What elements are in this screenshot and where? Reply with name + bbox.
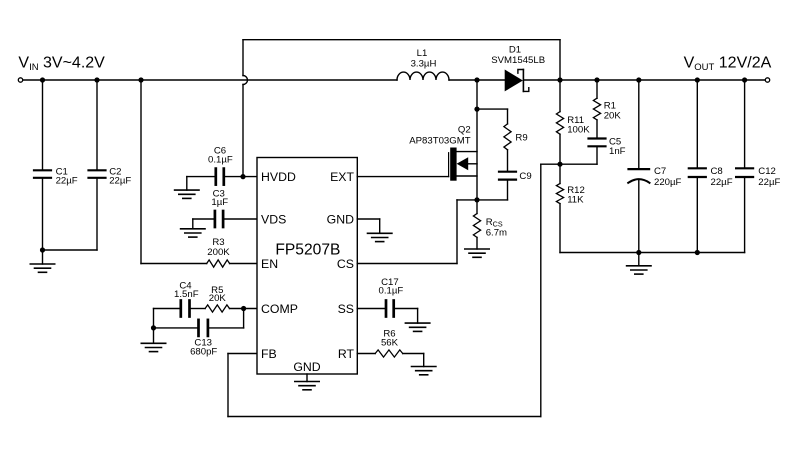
svg-text:100K: 100K bbox=[567, 124, 590, 135]
svg-text:GND: GND bbox=[293, 360, 320, 374]
svg-text:C12: C12 bbox=[758, 166, 776, 177]
svg-text:VIN 3V~4.2V: VIN 3V~4.2V bbox=[18, 55, 105, 74]
svg-text:11K: 11K bbox=[567, 195, 584, 206]
svg-text:R9: R9 bbox=[515, 133, 527, 144]
svg-text:D1: D1 bbox=[509, 44, 521, 55]
svg-text:6.7m: 6.7m bbox=[486, 227, 507, 238]
svg-text:22µF: 22µF bbox=[711, 177, 733, 188]
svg-text:22µF: 22µF bbox=[56, 175, 78, 186]
svg-text:0.1µF: 0.1µF bbox=[208, 154, 233, 165]
svg-text:EXT: EXT bbox=[330, 170, 354, 184]
svg-text:C8: C8 bbox=[711, 166, 723, 177]
svg-text:200K: 200K bbox=[207, 247, 230, 258]
svg-text:HVDD: HVDD bbox=[261, 170, 296, 184]
svg-text:1µF: 1µF bbox=[211, 197, 228, 208]
svg-text:GND: GND bbox=[327, 213, 354, 227]
svg-text:20K: 20K bbox=[604, 110, 622, 121]
svg-text:Q2: Q2 bbox=[458, 125, 471, 136]
svg-text:3.3µH: 3.3µH bbox=[411, 59, 437, 70]
svg-text:COMP: COMP bbox=[261, 302, 298, 316]
svg-text:SS: SS bbox=[338, 302, 354, 316]
svg-text:VOUT 12V/2A: VOUT 12V/2A bbox=[684, 55, 772, 74]
svg-text:1nF: 1nF bbox=[609, 146, 626, 157]
svg-text:FP5207B: FP5207B bbox=[275, 242, 340, 259]
svg-text:C7: C7 bbox=[654, 166, 666, 177]
svg-text:CS: CS bbox=[337, 257, 354, 271]
svg-text:C9: C9 bbox=[519, 171, 531, 182]
svg-text:20K: 20K bbox=[209, 293, 227, 304]
svg-text:56K: 56K bbox=[381, 337, 399, 348]
svg-text:1.5nF: 1.5nF bbox=[174, 289, 199, 300]
svg-text:680pF: 680pF bbox=[190, 346, 217, 357]
svg-text:EN: EN bbox=[261, 257, 278, 271]
svg-text:RT: RT bbox=[338, 347, 355, 361]
svg-text:AP83T03GMT: AP83T03GMT bbox=[409, 136, 470, 147]
svg-text:22µF: 22µF bbox=[758, 177, 780, 188]
svg-text:SVM1545LB: SVM1545LB bbox=[491, 55, 545, 66]
svg-text:FB: FB bbox=[261, 347, 277, 361]
svg-text:22µF: 22µF bbox=[109, 175, 131, 186]
svg-text:L1: L1 bbox=[417, 48, 428, 59]
svg-text:0.1µF: 0.1µF bbox=[379, 285, 404, 296]
svg-text:220µF: 220µF bbox=[654, 177, 682, 188]
svg-text:VDS: VDS bbox=[261, 213, 286, 227]
